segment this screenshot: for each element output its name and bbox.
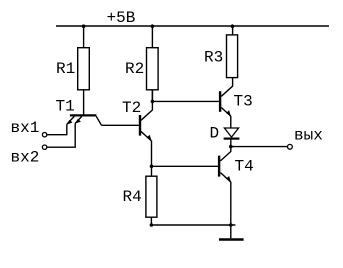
node rail-R2 — [151, 24, 155, 28]
wire R3 top lead — [232, 26, 234, 35]
transistor T3 emitter — [221, 108, 230, 117]
wire ground stem — [230, 225, 232, 238]
ground — [219, 238, 244, 240]
svg-text:вх1: вх1 — [11, 119, 40, 137]
wire bottom horizontal — [151, 224, 235, 226]
wire R2 bottom lead — [151, 90, 153, 102]
wire R3 bottom lead and T3 collector — [221, 78, 232, 97]
wire R2 top lead — [151, 26, 153, 48]
wire R4 bottom lead — [150, 217, 152, 225]
svg-text:+5В: +5В — [107, 9, 136, 27]
wire R1 bottom lead — [83, 90, 85, 115]
node R4 bottom — [150, 223, 154, 227]
transistor T3 base bar — [219, 91, 221, 112]
wire output — [231, 146, 287, 148]
wire T4 emitter down — [230, 182, 232, 225]
transistor T4 collector — [220, 147, 231, 162]
output terminal — [288, 144, 293, 149]
node T2 emitter — [150, 165, 154, 169]
svg-text:T4: T4 — [235, 158, 254, 176]
transistor T4 emitter — [220, 173, 230, 182]
diode D triangle — [224, 128, 238, 137]
svg-text:R4: R4 — [123, 188, 142, 206]
wire emitter1 to input 1 — [47, 124, 67, 135]
arrow T1 emitter 2 — [75, 119, 81, 124]
arrow T3 emitter — [226, 110, 231, 116]
input terminal vh1 — [42, 133, 46, 137]
resistor R4 — [146, 176, 157, 217]
node output — [229, 145, 233, 149]
svg-text:вых: вых — [294, 127, 323, 145]
svg-text:T3: T3 — [234, 93, 253, 111]
svg-text:R1: R1 — [56, 60, 75, 78]
node T2 collector — [151, 100, 155, 104]
arrow T1 emitter 1 — [66, 120, 72, 125]
transistor T2 base bar — [139, 115, 141, 136]
transistor T1 emitter 1 — [67, 116, 75, 124]
wire T2 emitter node to T4 base — [152, 165, 218, 167]
node rail-R1 — [82, 24, 86, 28]
svg-text:T1: T1 — [56, 98, 75, 116]
resistor R2 — [147, 48, 159, 90]
transistor T1 emitter 2 — [75, 116, 82, 123]
node rail-R3 — [231, 24, 235, 28]
svg-text:вх2: вх2 — [11, 148, 40, 166]
arrow T2 emitter — [147, 135, 152, 141]
wire T3 emitter to diode — [230, 116, 232, 128]
wire T2 emitter down to R4 — [151, 140, 153, 176]
wire T2 collector node to T3 base — [152, 100, 218, 102]
resistor R1 — [78, 48, 90, 90]
diode D cathode bar — [224, 138, 240, 140]
wire T1 collector to T2 base — [102, 124, 139, 126]
transistor T1 base bar — [70, 114, 97, 116]
wire R1 top lead — [83, 26, 85, 48]
svg-text:T2: T2 — [122, 99, 141, 117]
arrow T4 emitter — [226, 176, 231, 182]
node ground — [229, 223, 233, 227]
transistor T2 collector — [141, 90, 152, 121]
transistor T2 emitter — [141, 131, 151, 140]
transistor T1 collector — [96, 116, 101, 125]
svg-text:R2: R2 — [125, 60, 144, 78]
wire emitter2 to input 2 — [47, 123, 75, 147]
resistor R3 — [227, 35, 238, 78]
transistor T4 base bar — [218, 156, 220, 177]
wire diode to output node — [230, 139, 232, 148]
svg-text:D: D — [210, 125, 220, 143]
wire +5V rail — [56, 25, 329, 27]
svg-text:R3: R3 — [204, 49, 223, 67]
input terminal vh2 — [42, 145, 46, 149]
